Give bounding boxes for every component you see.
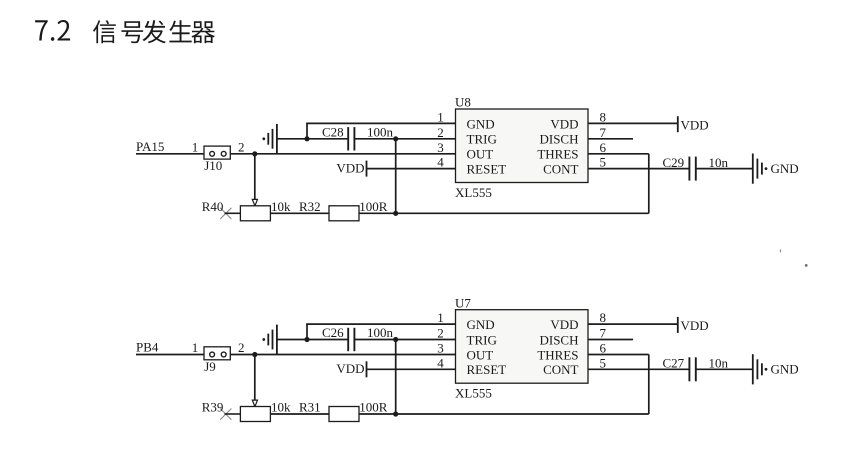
svg-text:RESET: RESET — [467, 362, 507, 377]
junction TRIG wire — [393, 136, 398, 141]
J9 designator — [204, 359, 216, 374]
svg-text:2: 2 — [238, 340, 245, 355]
title char 生 — [169, 20, 191, 42]
svg-text:J10: J10 — [204, 158, 222, 173]
svg-text:100n: 100n — [367, 325, 394, 340]
title char 信 — [93, 20, 116, 43]
U7 pin 3 number — [437, 341, 444, 356]
U7 pin 7 number — [600, 326, 607, 341]
timer IC U7 body — [456, 310, 589, 384]
stray speck 2 — [805, 264, 808, 267]
VDD symbol at pin8 — [678, 116, 709, 132]
wire R31 to feedback corner — [359, 413, 649, 415]
svg-text:VDD: VDD — [681, 318, 709, 333]
resistor R32 body — [329, 206, 359, 221]
U7 pin 8 number — [600, 310, 607, 325]
U8 part number XL555 — [455, 185, 492, 200]
R39 designator — [202, 400, 224, 415]
U7 pin label DISCH — [539, 332, 578, 347]
svg-text:1: 1 — [192, 340, 199, 355]
R39 value 10k — [271, 400, 291, 415]
ground symbol left — [262, 325, 277, 355]
U8 pin label OUT — [467, 147, 494, 162]
svg-text:3: 3 — [437, 140, 444, 155]
ground net label GND — [771, 362, 799, 377]
svg-text:CONT: CONT — [543, 162, 578, 177]
potentiometer R39 wiper arrow — [252, 400, 257, 407]
C28 designator — [322, 124, 344, 139]
capacitor C27 — [689, 357, 695, 381]
potentiometer R40 body — [240, 206, 270, 221]
U7 pin label THRES — [537, 347, 578, 362]
junction GND net — [304, 337, 309, 342]
J9 pin 2 number — [238, 340, 245, 355]
title char 7 — [35, 20, 48, 40]
ground symbol right — [753, 154, 768, 184]
U8 pin 4 number — [437, 155, 444, 170]
net label PB4 — [136, 340, 159, 355]
potentiometer R40 wiper arrow — [252, 199, 257, 206]
junction at OUT wire — [252, 151, 257, 156]
wire R32 to feedback corner — [359, 212, 649, 214]
ground net label GND — [771, 161, 799, 176]
wire C28 to U8 TRIG — [354, 138, 455, 140]
junction at OUT wire — [252, 352, 257, 357]
VDD symbol at RESET — [336, 361, 366, 377]
svg-text:U8: U8 — [455, 95, 471, 110]
wire feedback vertical — [648, 355, 650, 415]
svg-text:C28: C28 — [322, 124, 344, 139]
title char . — [51, 37, 55, 41]
C29 designator — [663, 155, 685, 170]
U8 pin 7 number — [600, 125, 607, 140]
U8 pin label GND — [467, 116, 495, 131]
U7 pin 1 number — [437, 310, 444, 325]
title char 号 — [121, 21, 143, 43]
svg-text:2: 2 — [437, 326, 444, 341]
svg-text:3: 3 — [437, 341, 444, 356]
svg-text:1: 1 — [192, 139, 199, 154]
svg-text:R31: R31 — [299, 400, 321, 415]
C29 value 10n — [709, 155, 729, 170]
wire J10 pin2 to U8 OUT — [230, 153, 456, 155]
svg-text:1: 1 — [437, 310, 444, 325]
wire U8 pin7 DISCH stub — [588, 138, 633, 140]
svg-text:R32: R32 — [299, 199, 321, 214]
wire U7 pin8 to VDD — [588, 323, 678, 325]
junction GND net — [304, 136, 309, 141]
U7 pin label RESET — [467, 362, 507, 377]
capacitor C29 — [689, 157, 695, 181]
svg-text:DISCH: DISCH — [539, 132, 578, 147]
U7 pin 4 number — [437, 355, 444, 370]
wire TRIG column vertical — [395, 139, 397, 214]
R40 unconnected pin X mark — [220, 208, 240, 219]
U8 pin label DISCH — [539, 132, 578, 147]
U7 pin label OUT — [467, 347, 494, 362]
svg-text:XL555: XL555 — [455, 386, 492, 401]
svg-text:VDD: VDD — [681, 117, 709, 132]
R31 designator — [299, 400, 321, 415]
connector J10 — [204, 146, 230, 159]
U7 pin label CONT — [543, 362, 578, 377]
wire PB4 to J9 pin1 — [136, 354, 205, 356]
junction feedback/TRIG column — [393, 411, 398, 416]
svg-text:100n: 100n — [367, 124, 394, 139]
C28 value 100n — [367, 124, 394, 139]
wire U7 pin5 CONT to C27 — [588, 368, 689, 370]
svg-text:R40: R40 — [202, 199, 224, 214]
svg-text:VDD: VDD — [550, 317, 578, 332]
svg-text:GND: GND — [771, 362, 799, 377]
wire GND net to U7 pin1 — [306, 324, 455, 339]
svg-text:7: 7 — [600, 326, 607, 341]
capacitor C26 — [348, 328, 354, 351]
C26 value 100n — [367, 325, 394, 340]
wire junction down to R39 wiper — [254, 355, 256, 401]
svg-text:C27: C27 — [663, 356, 685, 371]
svg-text:6: 6 — [600, 341, 607, 356]
U8 pin 3 number — [437, 140, 444, 155]
svg-text:6: 6 — [600, 140, 607, 155]
J10 designator — [204, 158, 222, 173]
svg-text:10n: 10n — [709, 155, 729, 170]
svg-text:CONT: CONT — [543, 362, 578, 377]
svg-text:10k: 10k — [271, 199, 291, 214]
wire VDD to U8 RESET — [367, 168, 456, 170]
svg-text:4: 4 — [437, 355, 444, 370]
svg-text:100R: 100R — [359, 400, 388, 415]
wire feedback vertical — [648, 154, 650, 214]
U7 pin 6 number — [600, 341, 607, 356]
svg-text:R39: R39 — [202, 400, 224, 415]
wire U8 pin6 THRES to feedback — [588, 153, 649, 155]
wire VDD to U7 RESET — [367, 368, 456, 370]
U8 pin label RESET — [467, 162, 507, 177]
U7 pin label GND — [467, 317, 495, 332]
U8 pin label TRIG — [467, 132, 497, 147]
svg-text:5: 5 — [600, 155, 607, 170]
U7 pin 5 number — [600, 355, 607, 370]
connector J9 — [204, 347, 230, 360]
wire ground to C28 — [277, 138, 348, 140]
U8 pin 1 number — [437, 109, 444, 124]
wire U7 pin7 DISCH stub — [588, 339, 633, 341]
U7 pin label VDD — [550, 317, 578, 332]
svg-text:8: 8 — [600, 110, 607, 125]
R40 designator — [202, 199, 224, 214]
R32 designator — [299, 199, 321, 214]
svg-text:TRIG: TRIG — [467, 132, 497, 147]
svg-text:1: 1 — [437, 109, 444, 124]
net label PA15 — [136, 139, 164, 154]
svg-text:2: 2 — [238, 139, 245, 154]
capacitor C28 — [348, 127, 354, 150]
ground symbol left — [262, 124, 277, 154]
U8 pin 6 number — [600, 140, 607, 155]
wire R39 to R31 — [270, 413, 329, 415]
svg-text:THRES: THRES — [537, 347, 578, 362]
svg-text:10k: 10k — [271, 400, 291, 415]
svg-text:8: 8 — [600, 310, 607, 325]
svg-text:XL555: XL555 — [455, 185, 492, 200]
J9 pin 1 number — [192, 340, 199, 355]
wire C29 to ground — [696, 168, 753, 170]
wire U8 pin8 to VDD — [588, 122, 678, 124]
C26 designator — [322, 325, 344, 340]
U8 pin 5 number — [600, 155, 607, 170]
wire TRIG column vertical — [395, 340, 397, 415]
svg-text:7: 7 — [600, 125, 607, 140]
svg-text:J9: J9 — [204, 359, 216, 374]
U8 pin label VDD — [550, 116, 578, 131]
junction feedback/TRIG column — [393, 211, 398, 216]
wire J9 pin2 to U7 OUT — [230, 354, 456, 356]
wire C26 to U7 TRIG — [354, 339, 455, 341]
potentiometer R39 body — [240, 407, 270, 422]
svg-text:OUT: OUT — [467, 147, 494, 162]
U8 pin 2 number — [437, 125, 444, 140]
ground symbol right — [753, 354, 768, 384]
J10 pin 1 number — [192, 139, 199, 154]
svg-text:100R: 100R — [359, 199, 388, 214]
U7 part number XL555 — [455, 386, 492, 401]
R32 value 100R — [359, 199, 388, 214]
svg-text:VDD: VDD — [336, 160, 364, 175]
svg-text:2: 2 — [437, 125, 444, 140]
wire GND net to U8 pin1 — [306, 123, 455, 138]
svg-text:10n: 10n — [709, 356, 729, 371]
svg-text:C29: C29 — [663, 155, 685, 170]
VDD symbol at RESET — [336, 160, 366, 176]
U7 pin label TRIG — [467, 332, 497, 347]
wire R40 to R32 — [270, 212, 329, 214]
U8 pin label CONT — [543, 162, 578, 177]
wire junction down to R40 wiper — [254, 154, 256, 200]
wire PA15 to J10 pin1 — [136, 153, 205, 155]
op-amp timer U7 designator — [455, 295, 471, 310]
junction TRIG wire — [393, 337, 398, 342]
op-amp timer U8 designator — [455, 95, 471, 110]
C27 designator — [663, 356, 685, 371]
svg-text:GND: GND — [771, 161, 799, 176]
resistor R31 body — [329, 407, 359, 422]
svg-text:TRIG: TRIG — [467, 332, 497, 347]
svg-text:RESET: RESET — [467, 162, 507, 177]
svg-text:PB4: PB4 — [136, 340, 159, 355]
title char 器 — [192, 21, 216, 43]
svg-text:PA15: PA15 — [136, 139, 164, 154]
svg-text:GND: GND — [467, 317, 495, 332]
U8 pin 8 number — [600, 110, 607, 125]
svg-text:5: 5 — [600, 355, 607, 370]
svg-text:U7: U7 — [455, 295, 471, 310]
wire U8 pin5 CONT to C29 — [588, 168, 689, 170]
timer IC U8 body — [456, 109, 589, 183]
J10 pin 2 number — [238, 139, 245, 154]
R39 unconnected pin X mark — [220, 409, 240, 420]
wire C27 to ground — [696, 368, 753, 370]
stray speck 1 — [780, 250, 781, 253]
title char 2 — [57, 20, 70, 41]
R31 value 100R — [359, 400, 388, 415]
svg-text:4: 4 — [437, 155, 444, 170]
svg-text:DISCH: DISCH — [539, 332, 578, 347]
title char 发 — [143, 20, 166, 43]
svg-text:VDD: VDD — [336, 361, 364, 376]
U8 pin label THRES — [537, 147, 578, 162]
svg-text:VDD: VDD — [550, 116, 578, 131]
svg-text:C26: C26 — [322, 325, 344, 340]
C27 value 10n — [709, 356, 729, 371]
U7 pin 2 number — [437, 326, 444, 341]
wire ground to C26 — [277, 339, 348, 341]
svg-text:THRES: THRES — [537, 147, 578, 162]
svg-text:GND: GND — [467, 116, 495, 131]
R40 value 10k — [271, 199, 291, 214]
VDD symbol at pin8 — [678, 317, 709, 333]
svg-text:OUT: OUT — [467, 347, 494, 362]
wire U7 pin6 THRES to feedback — [588, 354, 649, 356]
